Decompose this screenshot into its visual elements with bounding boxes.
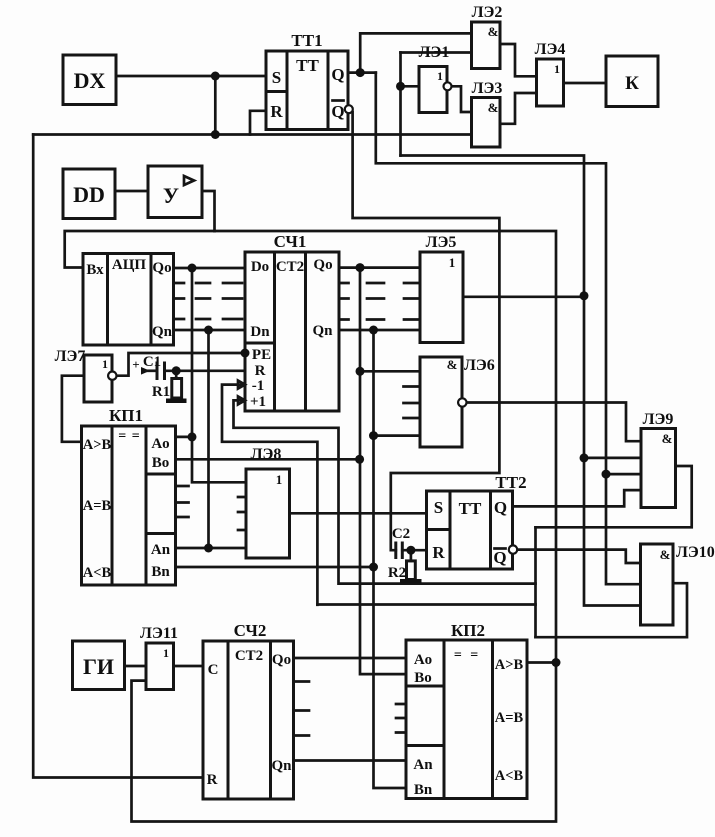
wire vertical joining returns (534, 527, 537, 637)
gate LE2 (472, 4, 503, 69)
gate LE6 (420, 357, 495, 447)
gate LE10 (641, 544, 715, 625)
wire branch to LE9 input 3 (606, 473, 641, 476)
node ADC Qn (204, 326, 213, 335)
svg-text:R: R (207, 772, 218, 788)
svg-text:+1: +1 (250, 394, 266, 410)
gate LE9 (641, 411, 676, 508)
svg-text:ЛЭ10: ЛЭ10 (676, 544, 715, 561)
wire line A across and down x584 (401, 156, 641, 606)
SCH2 right stubs (294, 682, 310, 736)
trigger TT2 (427, 473, 527, 569)
capacitor C2 (392, 526, 410, 559)
svg-text:СЧ2: СЧ2 (234, 621, 267, 640)
wire U line left to ADC input (65, 231, 215, 268)
svg-text:1: 1 (276, 472, 283, 487)
svg-text:A<B: A<B (495, 768, 524, 784)
node LE9 input3 (602, 470, 611, 479)
wire LE10 output return (536, 583, 688, 637)
svg-text:R: R (432, 543, 445, 562)
svg-text:ЛЭ5: ЛЭ5 (426, 234, 457, 251)
svg-text:ЛЭ1: ЛЭ1 (419, 44, 450, 61)
wire -1 line joins return vertical (317, 603, 535, 606)
node C2/R2 (406, 546, 415, 555)
svg-text:ЛЭ6: ЛЭ6 (464, 357, 495, 374)
svg-text:An: An (413, 757, 433, 773)
svg-text:Qo: Qo (152, 260, 171, 276)
resistor R2 (388, 550, 415, 581)
svg-text:1: 1 (449, 255, 456, 270)
comparator KP1 (82, 406, 176, 585)
svg-text:1: 1 (163, 646, 169, 660)
wire LE11 output to SCH2 C (174, 665, 204, 668)
wire LE9 output return (536, 466, 692, 527)
gate LE1 (419, 44, 452, 113)
svg-text:R1: R1 (152, 384, 170, 400)
node TT1 Q (356, 68, 365, 77)
svg-text:A>B: A>B (495, 657, 524, 673)
wire LE5 output to line A (463, 295, 584, 298)
svg-text:+: + (132, 357, 139, 372)
KP2 left stubs (396, 704, 406, 733)
svg-text:КП2: КП2 (451, 621, 485, 640)
LE6 left stubs (404, 387, 421, 419)
svg-text:CT2: CT2 (235, 648, 263, 664)
wire TT2 Q to LE9 input 4 (513, 490, 642, 506)
node PE (241, 349, 250, 358)
wire branch to LE6 bottom input (374, 434, 421, 437)
node SCH1 Qn (369, 326, 378, 335)
wire LE2 output to LE4 input 1 (500, 44, 537, 76)
svg-text:КП1: КП1 (109, 406, 143, 425)
ground below R1 (166, 399, 187, 404)
svg-text:&: & (447, 357, 458, 372)
wire LE3 output to LE4 input 2 (500, 93, 537, 124)
svg-text:Q: Q (494, 498, 507, 517)
wire ADC Qo bus down to LE8 input 1 (192, 268, 246, 482)
node LE5 out / line A (580, 291, 589, 300)
wire LE4 output to K (564, 82, 607, 85)
wire SCH1 Qo to LE5 input 1 (339, 266, 420, 269)
node ADC Qo (188, 264, 197, 273)
node KP1 Bo (355, 455, 364, 464)
wire U line right and down right side to bottom (132, 231, 557, 822)
node KP1 An (204, 544, 213, 553)
gate LE7 (55, 348, 117, 402)
wire node to LE1 (401, 85, 420, 88)
wire KP1 Ao (176, 436, 193, 439)
svg-text:ЛЭ7: ЛЭ7 (55, 348, 86, 365)
svg-text:Qn: Qn (312, 323, 333, 339)
block DX (63, 55, 116, 105)
wire C1 to SCH1 R input (165, 369, 246, 372)
wire LE1 output to LE3 input 1 (452, 86, 472, 112)
input arrow +1 (238, 396, 245, 404)
gate LE11 (140, 625, 178, 690)
wire SCH1 Qo bus down to KP2 Bo (360, 268, 406, 674)
wire KP1 Bn to Qn bus (176, 566, 374, 569)
wire riser to TT1 R (250, 111, 266, 135)
svg-text:A=B: A=B (83, 498, 112, 514)
svg-text:ЛЭ3: ЛЭ3 (472, 80, 503, 97)
wire KP1 An to LE8 bottom input (176, 547, 247, 550)
node LE9 input2 (580, 453, 589, 462)
svg-text:ЛЭ4: ЛЭ4 (535, 41, 566, 58)
svg-text:DX: DX (74, 68, 106, 93)
svg-text:1: 1 (102, 357, 108, 371)
wire TT1 notQ down and over to C2 riser (353, 112, 500, 550)
gate LE4 (535, 41, 566, 106)
svg-text:S: S (272, 68, 281, 87)
block ADC (ACP) (83, 254, 174, 346)
svg-text:ЛЭ8: ЛЭ8 (251, 446, 282, 463)
svg-text:&: & (660, 547, 671, 562)
svg-text:Bo: Bo (414, 670, 432, 686)
svg-text:СЧ1: СЧ1 (274, 232, 307, 251)
wire Q up to LE2 input 1 (360, 33, 471, 72)
svg-text:R: R (270, 102, 283, 121)
node LE6 input1 (356, 367, 365, 376)
wire SCH1 Qn to LE5 bottom input (339, 329, 420, 332)
bus dashes ADC-SCH1 (174, 283, 421, 736)
svg-text:ЛЭ9: ЛЭ9 (643, 411, 674, 428)
wire SCH2 Qo to KP2 Ao (294, 657, 407, 660)
wire SCH1 -1 route down (222, 385, 317, 605)
node KP2 A>B (552, 658, 561, 667)
counter SCH1 (238, 232, 339, 411)
svg-text:ЛЭ11: ЛЭ11 (140, 625, 178, 642)
svg-text:К: К (625, 73, 639, 94)
wire SCH2 Qn to KP2 An (294, 759, 407, 762)
svg-text:An: An (151, 542, 171, 558)
wire ADC Qn bus down to KP1 An line (207, 330, 210, 548)
svg-text:C2: C2 (392, 526, 410, 542)
wire left frame vertical down to SCH2 R (33, 135, 203, 778)
svg-text:Ao: Ao (414, 652, 432, 668)
svg-text:S: S (434, 498, 443, 517)
svg-text:Bn: Bn (151, 564, 170, 580)
svg-text:ГИ: ГИ (83, 654, 114, 679)
node KP1 Ao (188, 432, 197, 441)
block DD (63, 169, 115, 219)
svg-text:Q: Q (331, 65, 344, 84)
wire U output tee (202, 191, 215, 231)
KP1 right stubs (176, 486, 189, 517)
svg-text:&: & (488, 100, 499, 115)
wire LE8 output to TT2 S (290, 512, 427, 515)
amplifier U (148, 166, 202, 218)
wire DD to U (115, 190, 148, 193)
svg-text:Qn: Qn (152, 324, 173, 340)
svg-text:Q: Q (493, 548, 506, 567)
wire LE6 output to LE9 input 1 (467, 403, 642, 442)
gate LE8 (246, 446, 290, 558)
block GI (73, 641, 125, 690)
svg-text:1: 1 (437, 69, 443, 83)
node KP1 Bn (369, 563, 378, 572)
bus dashes SCH1-LE5 (339, 283, 420, 320)
svg-text:Qn: Qn (271, 758, 292, 774)
wire ADC Qn to SCH1 Dn (174, 329, 246, 332)
node frame line (211, 130, 220, 139)
wire node vertical LE1 input (399, 53, 402, 156)
svg-text:У: У (163, 183, 179, 208)
wire C2 to TT2 R (402, 549, 426, 552)
counter SCH2 (203, 621, 294, 799)
ground below R2 (400, 579, 422, 584)
resistor R1 (152, 371, 182, 400)
svg-text:TT: TT (296, 56, 319, 75)
wire KP1 Bo to Qo bus (176, 458, 360, 461)
wire SCH1 +1 route down (234, 400, 536, 583)
svg-text:&: & (662, 431, 673, 446)
wire ADC Qo to SCH1 Do (174, 267, 246, 270)
svg-text:TT1: TT1 (291, 31, 322, 50)
wire TT2 notQ to LE10 input 1 (517, 550, 640, 563)
svg-text:Qo: Qo (272, 652, 291, 668)
gate LE3 (472, 80, 503, 147)
svg-text:Qo: Qo (313, 257, 332, 273)
svg-text:Dn: Dn (250, 324, 270, 340)
node C1/R1 (172, 366, 181, 375)
wire branch to LE9 input 2 (584, 457, 641, 460)
svg-text:PE: PE (252, 347, 271, 363)
wire GI to LE11 (125, 665, 147, 668)
svg-text:Q: Q (331, 102, 344, 121)
svg-text:C1: C1 (143, 354, 161, 370)
svg-text:1: 1 (554, 62, 560, 76)
svg-text:Bn: Bn (414, 782, 433, 798)
svg-text:Вх: Вх (86, 262, 104, 278)
wire LE7 output to SCH1 PE (117, 353, 246, 376)
svg-text:R: R (255, 363, 266, 379)
svg-text:Ao: Ao (151, 436, 169, 452)
wire TT1 Q output (348, 71, 376, 74)
wire LE2 input 2 from node (401, 51, 472, 54)
block K (606, 56, 658, 107)
node LE6 input2 (369, 431, 378, 440)
node SCH1 Qo (356, 263, 365, 272)
svg-text:= =: = = (118, 429, 140, 444)
wire node under DX down (214, 76, 217, 135)
LE8 left stubs (238, 497, 246, 530)
wire KP2 A>B output to right vertical (527, 661, 556, 664)
gate LE5 (420, 234, 463, 343)
wire KP1 A>B to LE7 input (62, 376, 84, 442)
svg-text:C: C (208, 662, 219, 678)
svg-text:R2: R2 (388, 565, 406, 581)
trigger TT1 (266, 31, 353, 130)
svg-text:-1: -1 (252, 378, 265, 394)
capacitor C1 (132, 354, 164, 380)
comparator KP2 (406, 621, 527, 799)
wire SCH1 Qn bus down to KP2 Bn (374, 330, 407, 788)
svg-text:= =: = = (454, 648, 478, 663)
svg-text:A<B: A<B (83, 565, 112, 581)
wire Q down right side to LE9 and LE10 (376, 73, 641, 585)
svg-text:ЛЭ2: ЛЭ2 (472, 4, 503, 21)
svg-text:Bo: Bo (152, 455, 170, 471)
wire long horizontal from left frame to LE3 input 2 (33, 133, 471, 136)
svg-text:A>B: A>B (83, 437, 112, 453)
svg-text:TT2: TT2 (495, 473, 526, 492)
svg-text:Do: Do (251, 259, 269, 275)
input arrow -1 (238, 381, 245, 389)
node LE1 input (396, 82, 405, 91)
wire DX to TT1 S (116, 75, 266, 78)
wire branch to LE6 input 1 (360, 370, 420, 373)
svg-text:АЦП: АЦП (112, 257, 147, 273)
svg-text:A=B: A=B (495, 710, 524, 726)
svg-text:CT2: CT2 (276, 259, 304, 275)
svg-text:TT: TT (459, 499, 482, 518)
node DX/S (211, 72, 220, 81)
svg-text:&: & (488, 24, 499, 39)
svg-text:DD: DD (73, 182, 105, 207)
